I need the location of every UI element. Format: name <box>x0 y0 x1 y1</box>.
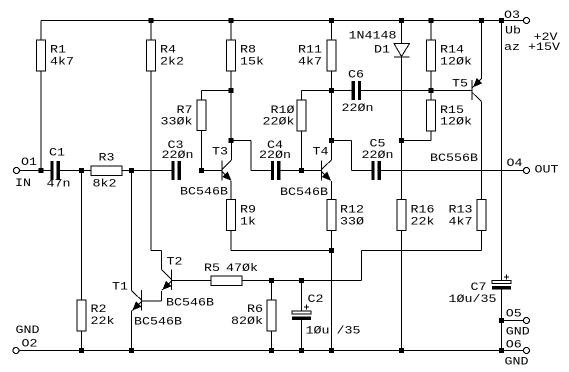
svg-text:C1: C1 <box>49 147 65 160</box>
svg-text:OUT: OUT <box>535 164 559 177</box>
junction C4/R10/T4-base node <box>299 168 304 173</box>
svg-text:12Øk: 12Øk <box>440 56 472 69</box>
transistor T1 BC546B <box>141 290 143 311</box>
junction node B (C1/R3/R2) <box>79 168 84 173</box>
svg-text:T1: T1 <box>112 280 128 293</box>
wire T2 base to R5 <box>172 280 212 282</box>
svg-text:BC546B: BC546B <box>134 316 182 329</box>
junction T3 collector node <box>229 138 234 143</box>
svg-text:R3: R3 <box>99 152 115 165</box>
svg-text:az: az <box>504 41 520 54</box>
svg-text:2k2: 2k2 <box>160 56 184 69</box>
transistor T3 BC546B <box>221 161 223 181</box>
resistor R1 4k7 <box>40 21 42 41</box>
wire C4 to T4 base <box>280 170 321 172</box>
terminal O2 GND <box>13 348 19 354</box>
svg-text:O5: O5 <box>506 307 522 320</box>
wire top +Ub supply rail <box>41 20 524 22</box>
junction feedback wire / ground rail <box>329 348 334 353</box>
terminal O1 IN <box>14 168 20 174</box>
wire R9 to feedback node <box>230 231 232 251</box>
wire T5 emitter from rail <box>481 21 483 79</box>
svg-text:22k: 22k <box>91 315 115 328</box>
svg-text:GND: GND <box>505 356 529 369</box>
svg-text:33Ø: 33Ø <box>340 216 364 229</box>
terminal O3 Ub <box>524 18 530 24</box>
svg-text:R16: R16 <box>411 204 435 217</box>
junction top rail / R14 <box>429 18 434 23</box>
junction top rail / R4 <box>149 18 154 23</box>
svg-text:4k7: 4k7 <box>448 216 472 229</box>
junction R16 / ground rail <box>399 348 404 353</box>
transistor T5 BC556B <box>471 80 473 100</box>
svg-text:O1: O1 <box>21 156 37 169</box>
svg-text:T4: T4 <box>313 146 329 159</box>
svg-text:33Øk: 33Øk <box>160 116 192 129</box>
svg-text:4k7: 4k7 <box>298 56 322 69</box>
wire ground bottom rail <box>19 350 502 352</box>
junction O5 / right rail <box>499 318 504 323</box>
svg-text:O4: O4 <box>507 157 523 170</box>
svg-text:1k: 1k <box>240 216 256 229</box>
svg-text:82Øk: 82Øk <box>231 315 263 328</box>
wire R3 to C3 <box>122 170 171 172</box>
transistor T2 BC546B <box>171 270 173 291</box>
terminal O5 GND <box>502 320 524 322</box>
wire T5 collector to R13 <box>481 102 483 200</box>
junction top rail / D1 <box>399 18 404 23</box>
capacitor C6 220n <box>352 81 355 100</box>
resistor R4 2k2 <box>150 21 152 41</box>
svg-text:22Øn: 22Øn <box>162 149 194 162</box>
svg-text:22k: 22k <box>411 216 435 229</box>
svg-text:BC556B: BC556B <box>430 152 478 165</box>
svg-text:D1: D1 <box>374 44 390 57</box>
svg-text:47n: 47n <box>47 178 71 191</box>
junction R11 bottom node <box>329 88 334 93</box>
junction R2 / ground rail <box>79 348 84 353</box>
svg-text:22Øn: 22Øn <box>362 149 394 162</box>
wire C1 to R3 <box>60 170 91 172</box>
svg-text:O3: O3 <box>504 9 520 22</box>
resistor R6 820k <box>271 281 273 301</box>
svg-text:12Øk: 12Øk <box>440 116 472 129</box>
wire R13 to feedback line <box>362 250 482 252</box>
resistor R7 330k <box>202 90 232 92</box>
wire T3 emitter to R9 <box>230 181 232 200</box>
svg-text:C2: C2 <box>308 293 324 306</box>
wire R5 to feedback corner <box>242 280 362 282</box>
wire R12 to feedback node <box>331 231 333 251</box>
junction T4 collector node <box>329 138 334 143</box>
svg-text:R7: R7 <box>176 104 192 117</box>
terminal O4 OUT <box>524 168 530 174</box>
svg-text:R2: R2 <box>91 303 107 316</box>
junction R5/R6 node <box>269 278 274 283</box>
resistor R8 15k <box>230 21 232 41</box>
junction top rail / right rail <box>499 18 504 23</box>
junction feedback node (R9/R12/ground) <box>329 248 334 253</box>
wire right vertical rail (O3 to C7) <box>501 21 503 281</box>
junction T1 emitter / ground rail <box>129 348 134 353</box>
capacitor C5 220n <box>372 161 375 180</box>
wire feedback node to ground rail <box>331 251 333 351</box>
wire O1 to node A <box>20 170 51 172</box>
wire D1 to R16 <box>401 57 403 200</box>
svg-text:R8: R8 <box>240 44 256 57</box>
svg-text:/35: /35 <box>337 325 361 338</box>
resistor R14 120k <box>430 21 432 41</box>
svg-text:R6: R6 <box>247 303 263 316</box>
resistor R10 220k <box>301 91 303 101</box>
svg-text:IN: IN <box>15 177 31 190</box>
resistor R2 22k <box>81 171 83 301</box>
svg-text:O2: O2 <box>22 337 38 350</box>
svg-text:15k: 15k <box>240 56 264 69</box>
capacitor C1 47n <box>50 161 53 180</box>
resistor R9 1k <box>227 200 236 231</box>
svg-text:BC546B: BC546B <box>166 297 214 310</box>
svg-text:GND: GND <box>16 324 40 337</box>
svg-text:1Øu: 1Øu <box>306 325 330 338</box>
svg-text:R4: R4 <box>160 44 176 57</box>
resistor R3 8k2 <box>91 166 122 176</box>
junction C3/R7/T3-base node <box>199 168 204 173</box>
wire R15 bottom link <box>402 140 432 142</box>
wire C5 to output terminal O4 <box>381 170 524 172</box>
junction top rail / T5 emitter <box>479 18 484 23</box>
svg-text:22Øn: 22Øn <box>259 149 291 162</box>
capacitor C4 220n <box>271 161 274 180</box>
wire T1 base to T2 emitter <box>142 300 162 302</box>
junction top rail / R11 <box>329 18 334 23</box>
capacitor C7 10u/35 electrolytic <box>492 281 511 284</box>
capacitor C3 220n <box>171 161 174 180</box>
svg-text:22Øn: 22Øn <box>342 102 374 115</box>
capacitor C2 10u/35 electrolytic <box>301 281 303 312</box>
resistor R15 120k <box>430 91 432 101</box>
wire R11 node to T4 collector <box>331 91 333 141</box>
resistor R16 22k <box>397 200 406 231</box>
wire T4 emitter to R12 <box>331 181 333 200</box>
svg-text:C6: C6 <box>348 69 364 82</box>
svg-text:1N4148: 1N4148 <box>349 30 397 43</box>
svg-text:R9: R9 <box>240 204 256 217</box>
terminal O6 GND <box>502 350 524 352</box>
wire T3 collector to C4 <box>231 140 251 142</box>
svg-text:Ub: Ub <box>505 25 521 38</box>
svg-text:O6: O6 <box>506 339 522 352</box>
svg-text:T2: T2 <box>167 256 183 269</box>
junction D1/R15 node <box>399 138 404 143</box>
svg-text:T5: T5 <box>452 78 468 91</box>
wire right vertical rail (C7 to ground) <box>501 290 503 351</box>
wire T1 emitter to ground <box>131 311 133 351</box>
junction R14/R15 node <box>429 88 434 93</box>
resistor R12 330 <box>327 200 336 231</box>
transistor T4 BC546B <box>321 161 323 181</box>
junction node C (R3/C3/T1 collector) <box>129 168 134 173</box>
svg-text:BC546B: BC546B <box>280 186 328 199</box>
diode D1 1N4148 <box>401 21 403 44</box>
svg-text:R12: R12 <box>340 204 364 217</box>
wire C3 node to T3 base <box>202 170 223 172</box>
resistor R11 4k7 <box>331 21 333 41</box>
svg-text:R15: R15 <box>440 104 464 117</box>
junction R7/R8 node <box>229 88 234 93</box>
resistor R5 470k <box>211 276 242 286</box>
svg-text:R1Ø: R1Ø <box>270 104 294 117</box>
svg-text:22Øk: 22Øk <box>262 116 294 129</box>
wire T4 collector to C5 <box>332 140 352 142</box>
wire T1 collector <box>131 171 133 291</box>
svg-text:8k2: 8k2 <box>93 178 117 191</box>
junction R5/C2 node <box>299 278 304 283</box>
svg-text:47Øk: 47Øk <box>226 262 258 275</box>
svg-text:C7: C7 <box>470 281 486 294</box>
svg-text:R1: R1 <box>50 44 66 57</box>
wire R4 to T2 collector (jog) <box>151 250 162 252</box>
junction R6 / ground rail <box>269 348 274 353</box>
svg-text:R11: R11 <box>298 44 322 57</box>
wire C6 to T5 base <box>361 90 472 92</box>
svg-text:R13: R13 <box>448 204 472 217</box>
junction O6 / right rail ground <box>499 348 504 353</box>
junction node A (R1/C1) <box>39 168 44 173</box>
wire R10 top to R11 node <box>302 90 352 92</box>
svg-text:4k7: 4k7 <box>50 56 74 69</box>
svg-text:C5: C5 <box>370 138 386 151</box>
svg-text:T3: T3 <box>212 146 228 159</box>
svg-text:R14: R14 <box>440 44 464 57</box>
junction C2 / ground rail <box>299 348 304 353</box>
svg-text:BC546B: BC546B <box>180 186 228 199</box>
svg-text:+15V: +15V <box>528 41 561 54</box>
svg-text:GND: GND <box>506 325 530 338</box>
svg-text:1Øu/35: 1Øu/35 <box>449 293 497 306</box>
junction top rail / R8 <box>229 18 234 23</box>
svg-text:R5: R5 <box>204 262 220 275</box>
resistor R13 4k7 <box>477 200 486 231</box>
